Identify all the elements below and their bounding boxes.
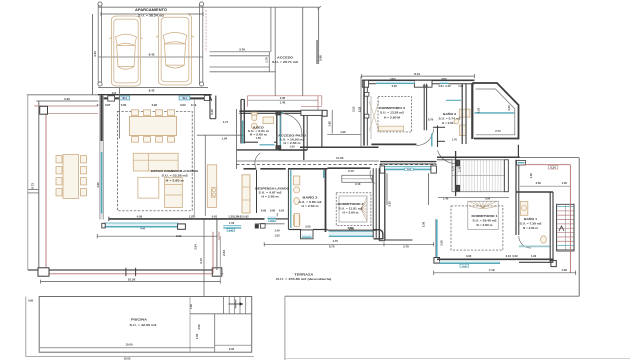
svg-text:4.40: 4.40	[93, 51, 97, 57]
pillar between dorm2 and dorm1 hall	[379, 168, 385, 240]
svg-text:(W7): (W7)	[390, 78, 395, 81]
pergola red lines	[34, 106, 98, 114]
kitchen area lines	[197, 135, 244, 216]
svg-text:2.00: 2.00	[229, 347, 235, 351]
red dashed boundary at parking right	[205, 10, 207, 52]
porch dims	[477, 105, 511, 133]
svg-text:1.00: 1.00	[561, 268, 567, 272]
svg-text:10.00: 10.00	[126, 343, 133, 347]
svg-text:11.03: 11.03	[336, 156, 344, 160]
terrace right verticals	[213, 220, 226, 282]
svg-text:APARCAMIENTO: APARCAMIENTO	[135, 8, 167, 12]
svg-text:0.60: 0.60	[121, 103, 127, 107]
svg-text:2.60: 2.60	[305, 225, 311, 229]
dorm3 south wall	[371, 143, 416, 145]
dimension 10.36	[41, 278, 221, 284]
living room label	[151, 169, 199, 183]
paso east nook wall	[321, 116, 323, 148]
car 2	[156, 14, 194, 85]
bano1 fixtures	[520, 202, 546, 244]
svg-text:H = 2.60 m: H = 2.60 m	[343, 211, 360, 215]
bano3 fixtures	[454, 109, 470, 135]
parking area outline	[98, 4, 321, 88]
dimension 3.30 left	[36, 97, 98, 101]
mid block north wall	[239, 111, 324, 113]
south wall dims	[137, 215, 243, 219]
svg-text:0.87: 0.87	[105, 103, 111, 107]
svg-text:S.U. = 13.26 m2: S.U. = 13.26 m2	[380, 111, 405, 115]
dorm1 hall walls	[387, 165, 454, 206]
svg-text:2.80: 2.80	[348, 226, 354, 230]
svg-text:1.03: 1.03	[274, 234, 280, 238]
svg-text:3.79: 3.79	[239, 48, 245, 52]
svg-text:2.10: 2.10	[348, 169, 354, 173]
svg-text:2.10: 2.10	[355, 182, 361, 186]
window dim extension line	[118, 88, 120, 139]
dim vertical 3.72	[194, 220, 205, 297]
svg-text:1.00: 1.00	[190, 303, 193, 308]
svg-text:4.70: 4.70	[333, 239, 339, 243]
svg-text:S.U. = 38.34 m2: S.U. = 38.34 m2	[138, 14, 164, 18]
svg-text:0.94: 0.94	[485, 196, 491, 200]
window W-1 left	[119, 96, 129, 100]
svg-text:1.40: 1.40	[443, 196, 449, 200]
paso south wall	[279, 149, 307, 151]
svg-text:3.53: 3.53	[507, 105, 511, 111]
dorm3 wardrobe	[365, 92, 380, 139]
fence left vertical lines	[28, 95, 46, 274]
svg-text:0.62: 0.62	[243, 215, 249, 219]
despensa south window	[267, 216, 288, 222]
pool inner division lines	[190, 297, 252, 353]
sliding glass door south	[102, 223, 186, 231]
despensa label	[255, 186, 290, 198]
svg-text:N = 2.80 m: N = 2.80 m	[477, 223, 494, 227]
svg-text:1.70: 1.70	[265, 57, 269, 63]
dorm2 label	[338, 202, 364, 215]
dorm2 south wall with window	[327, 226, 377, 236]
dorm3-bano3 divider wall	[424, 84, 433, 131]
dorm1 closet hatched	[452, 160, 508, 192]
living room dashed rect	[118, 111, 193, 211]
property boundary east black	[578, 158, 580, 297]
svg-text:2.96: 2.96	[152, 103, 158, 107]
bano2 label	[299, 194, 323, 208]
svg-text:8.44: 8.44	[414, 72, 420, 76]
acceso-paso label	[278, 133, 307, 148]
svg-text:1.16: 1.16	[423, 84, 429, 88]
despensa south step blocks	[255, 213, 285, 228]
svg-text:2.34: 2.34	[506, 254, 512, 258]
svg-text:H = 2.60 m: H = 2.60 m	[284, 141, 302, 145]
svg-text:6.75: 6.75	[329, 245, 335, 249]
svg-text:10.36: 10.36	[128, 278, 136, 282]
dorm1 block NW walls	[380, 126, 445, 164]
bano2 east wall	[325, 169, 327, 232]
dim 8.44	[362, 72, 475, 78]
dorm1 west wall cyan	[422, 219, 444, 263]
stairs center line and arrow	[559, 204, 565, 250]
living west window	[101, 152, 103, 214]
svg-text:1.00: 1.00	[562, 181, 568, 185]
wall aseo-paso divider	[276, 111, 281, 149]
svg-text:0.64: 0.64	[438, 84, 444, 88]
dorm2 west door jamb cyan	[323, 170, 325, 178]
svg-text:8.42: 8.42	[149, 88, 155, 92]
window W-1 right	[179, 96, 190, 100]
porch window cyan	[474, 112, 514, 114]
dorm3 bed dashed	[378, 97, 412, 132]
living south wall	[109, 217, 265, 221]
svg-text:0.79: 0.79	[428, 117, 434, 121]
living east wall upper	[210, 96, 229, 124]
svg-text:1.50: 1.50	[229, 221, 235, 225]
parking left dimension 4.40	[93, 14, 97, 95]
mid block west wall	[241, 99, 244, 143]
svg-text:3.52: 3.52	[357, 106, 361, 112]
svg-text:3.02: 3.02	[112, 93, 117, 95]
dorm3 west wall	[364, 80, 367, 145]
bano2 south wall with bay window	[288, 230, 327, 239]
dorm2 bed solid rect	[339, 196, 367, 222]
svg-text:3.53: 3.53	[477, 107, 481, 113]
svg-text:(W7): (W7)	[441, 78, 446, 81]
porch chamfered outline	[472, 83, 518, 139]
corridor east door jamb cyan	[431, 134, 433, 147]
NE boundary red line	[523, 164, 570, 166]
svg-text:1.40: 1.40	[280, 100, 286, 104]
stairs outline	[557, 204, 574, 251]
terrace boundary vertical mid	[284, 296, 286, 360]
svg-text:S.U. = 53.26 m2: S.U. = 53.26 m2	[162, 174, 188, 178]
dorm2 east wall	[373, 168, 376, 238]
svg-text:1.70: 1.70	[452, 137, 458, 141]
svg-text:BAÑO 1: BAÑO 1	[524, 216, 537, 221]
dorm3 north wall	[362, 80, 474, 87]
dorm2 closet	[342, 175, 373, 182]
bano3 east wall	[462, 84, 466, 144]
living east inner line	[193, 99, 195, 219]
svg-text:0.60: 0.60	[270, 209, 276, 213]
kitchen island	[165, 177, 183, 207]
svg-text:0.60: 0.60	[28, 299, 34, 303]
svg-text:3.10: 3.10	[210, 109, 214, 115]
svg-text:1.40: 1.40	[274, 229, 280, 233]
bano1 north wall	[516, 191, 553, 193]
paso east wall	[304, 111, 307, 160]
dorm2 bed dashed	[336, 193, 371, 226]
dorm1 south dims	[466, 254, 537, 258]
svg-text:2.70: 2.70	[403, 245, 409, 249]
pool outline	[26, 297, 254, 357]
svg-text:S.U. = 42.00 m2: S.U. = 42.00 m2	[130, 323, 158, 327]
svg-text:1.98: 1.98	[328, 121, 332, 127]
dorm3 label	[379, 106, 405, 120]
dorm1 label	[472, 214, 498, 227]
corridor dim 11.03	[237, 156, 380, 161]
svg-text:1.20: 1.20	[233, 215, 239, 219]
NE vertical wall piece	[517, 145, 519, 158]
bano2 fixtures	[293, 176, 299, 227]
parking label APARCAMIENTO	[101, 8, 203, 18]
svg-text:S.U. = 4.97 m2: S.U. = 4.97 m2	[259, 190, 283, 194]
dimension 3.79	[210, 48, 271, 52]
bano1 east wall	[550, 192, 553, 263]
svg-text:H = 2.60 m: H = 2.60 m	[302, 204, 320, 208]
svg-text:2.00: 2.00	[536, 181, 542, 185]
north wall dims	[97, 103, 197, 107]
svg-text:1.96: 1.96	[340, 130, 346, 134]
car 1	[109, 16, 142, 86]
dorm1-bano1 wall	[516, 160, 519, 235]
corridor west wall	[236, 109, 238, 169]
NE boundary black line	[518, 157, 579, 159]
svg-text:1.21: 1.21	[458, 84, 464, 88]
courtyard dims near paso	[301, 110, 361, 135]
dorm2 door arc	[370, 170, 375, 183]
despensa door arc	[255, 153, 260, 169]
svg-text:BAÑO 3: BAÑO 3	[443, 111, 456, 116]
svg-text:3.50: 3.50	[197, 324, 201, 330]
svg-text:S.U. = 26.71 m2: S.U. = 26.71 m2	[272, 60, 298, 64]
roof dashed line	[237, 164, 437, 166]
svg-text:DORMITORIO 3: DORMITORIO 3	[379, 106, 405, 110]
property boundary east red	[569, 165, 571, 273]
terrace piers	[38, 268, 222, 276]
svg-text:0.09: 0.09	[512, 254, 518, 258]
svg-text:16.00: 16.00	[124, 357, 131, 360]
dorm1 entry door arc	[438, 151, 457, 164]
sofa group	[133, 153, 178, 198]
svg-text:TERRAZA: TERRAZA	[294, 273, 314, 277]
svg-text:1.50: 1.50	[256, 136, 262, 140]
svg-text:3.53: 3.53	[351, 106, 355, 112]
svg-text:S.U. = 11.81 m2: S.U. = 11.81 m2	[339, 206, 364, 210]
svg-text:1.36: 1.36	[529, 173, 533, 179]
svg-text:BAÑO 2: BAÑO 2	[303, 194, 318, 199]
bano1 shower screen	[519, 245, 550, 247]
dorm1 headboard fan	[469, 201, 497, 208]
svg-text:V=H: V=H	[407, 169, 412, 171]
svg-text:0.40: 0.40	[445, 84, 451, 88]
parking corner columns	[98, 2, 204, 86]
svg-text:H = 2.80 m: H = 2.80 m	[166, 179, 185, 183]
dorm1 north wall right part	[437, 157, 520, 160]
bano3 shower screen cyan	[446, 99, 461, 101]
despensa dims	[261, 209, 285, 213]
terrace bottom dark line	[28, 269, 217, 271]
pool label	[130, 318, 158, 327]
dining table indoor	[130, 110, 177, 142]
svg-text:2.04: 2.04	[194, 244, 198, 250]
dim 0.94 and 1.40	[438, 166, 509, 200]
dimension 9.31	[97, 234, 217, 238]
pool dims	[28, 299, 235, 360]
despensa cabinets	[242, 175, 250, 213]
dorm3 south door arc	[416, 129, 433, 146]
svg-text:N = 2.60 m: N = 2.60 m	[523, 226, 539, 230]
aseo south wall and door	[244, 142, 277, 145]
svg-text:0.55: 0.55	[279, 209, 285, 213]
svg-text:4.00: 4.00	[137, 215, 143, 219]
svg-text:V=H: V=H	[270, 220, 275, 222]
terraza label	[276, 273, 331, 282]
dorm1 bed dashed	[451, 206, 503, 250]
outdoor dining table	[56, 155, 87, 199]
dim line 6.75 and 2.70	[264, 242, 434, 249]
svg-text:5.30: 5.30	[422, 221, 426, 227]
svg-text:W-1: W-1	[183, 97, 188, 100]
svg-text:ESTAR COMEDOR+COCINA: ESTAR COMEDOR+COCINA	[151, 169, 199, 173]
svg-text:W-1: W-1	[123, 97, 128, 100]
living block north wall	[98, 93, 212, 101]
svg-text:V=H: V=H	[140, 228, 145, 231]
svg-text:0.79: 0.79	[191, 103, 197, 107]
red boundary top of mid block	[248, 96, 323, 111]
stairs steps	[557, 207, 573, 246]
svg-text:ACCESO: ACCESO	[277, 55, 294, 59]
dorm3 bed headboard	[379, 126, 404, 131]
acceso label	[272, 55, 298, 64]
svg-text:H = 2.60 m: H = 2.60 m	[250, 133, 268, 137]
svg-text:V=H: V=H	[229, 230, 234, 232]
svg-text:3.30: 3.30	[64, 97, 70, 101]
svg-text:3.30: 3.30	[387, 201, 391, 207]
dorm1 north window	[380, 166, 436, 173]
svg-text:DORMITORIO 2: DORMITORIO 2	[338, 202, 364, 206]
svg-text:3.90: 3.90	[466, 254, 472, 258]
svg-text:D.U. = 155.80 m2 (descubierta): D.U. = 155.80 m2 (descubierta)	[276, 277, 331, 281]
despensa west wall	[256, 170, 258, 213]
svg-text:3.72: 3.72	[199, 258, 203, 264]
dorm3 north dims	[392, 84, 464, 88]
dorm3 windows north	[376, 78, 449, 84]
svg-text:0.60: 0.60	[180, 103, 186, 107]
svg-text:PISCINA: PISCINA	[131, 318, 148, 322]
svg-text:4.50: 4.50	[96, 182, 100, 188]
svg-text:DORMITORIO 1: DORMITORIO 1	[472, 214, 498, 218]
svg-text:2.74: 2.74	[495, 129, 501, 133]
svg-text:2.50: 2.50	[439, 240, 443, 246]
bano1 label	[520, 216, 543, 230]
dim 7.19	[434, 268, 576, 275]
entry court walls	[265, 7, 323, 96]
fence top-left horizontal	[27, 94, 98, 96]
aseo label	[248, 125, 270, 140]
bano2 west wall	[288, 169, 290, 229]
svg-text:0.61: 0.61	[212, 215, 218, 219]
faint bottom line	[285, 357, 630, 359]
closet end caps	[456, 160, 508, 192]
bano1 south wall	[519, 261, 553, 263]
hall south wall	[385, 239, 413, 241]
svg-text:S.U. = 7.39 m2: S.U. = 7.39 m2	[520, 222, 543, 226]
aseo fixtures	[251, 112, 273, 129]
closet hatch lines	[455, 160, 507, 191]
acceso walkway lines	[210, 7, 276, 96]
pergola column	[40, 106, 48, 114]
entry door arc	[281, 114, 302, 135]
svg-text:H = 2.80 M: H = 2.80 M	[384, 115, 401, 119]
terrace south boundary right	[285, 295, 579, 297]
dorm2 headboard fan east	[361, 197, 367, 221]
svg-text:0.60: 0.60	[261, 209, 267, 213]
svg-text:5.06: 5.06	[319, 55, 323, 61]
terrace bottom red line	[46, 273, 224, 275]
bano1 north window bits	[517, 161, 526, 166]
bano3 label	[439, 111, 462, 141]
svg-text:2.38: 2.38	[457, 166, 461, 172]
pool steps	[224, 297, 246, 314]
svg-text:H = 2.60 m: H = 2.60 m	[262, 195, 280, 199]
svg-text:S.U. = 29.46 m2: S.U. = 29.46 m2	[473, 219, 498, 223]
svg-text:1.50: 1.50	[195, 333, 199, 339]
svg-text:1.50: 1.50	[289, 144, 295, 148]
left fence tick	[28, 183, 39, 193]
svg-text:2.20: 2.20	[392, 84, 398, 88]
despensa-kitchen dim texts	[233, 215, 280, 238]
svg-text:1.94: 1.94	[222, 137, 228, 141]
svg-text:1.71: 1.71	[223, 120, 229, 124]
corridor north wall	[237, 147, 379, 150]
bano1 door arc	[519, 236, 531, 248]
NE dims	[520, 165, 570, 186]
closet west wall	[455, 151, 457, 196]
dorm3 left dim lines	[351, 76, 361, 147]
svg-text:2.04: 2.04	[222, 250, 226, 256]
svg-text:1.90: 1.90	[531, 254, 537, 258]
svg-text:1.87: 1.87	[189, 215, 195, 219]
living west wall	[100, 95, 104, 220]
dorm2 SE rounded corner	[374, 230, 383, 239]
svg-text:7.19: 7.19	[489, 268, 495, 272]
dorm1 bed solid rect	[468, 201, 498, 229]
window kitchen south 1.50	[223, 221, 241, 232]
corridor south wall segments	[244, 167, 371, 170]
dims 4.00 and 1.40	[248, 96, 319, 104]
dorm1 south wall	[437, 259, 556, 268]
svg-text:8.42: 8.42	[149, 53, 155, 57]
kitchen counter	[207, 165, 216, 208]
svg-text:0.34: 0.34	[550, 165, 556, 169]
svg-text:9.73: 9.73	[31, 183, 35, 189]
svg-text:9.31: 9.31	[176, 234, 182, 238]
svg-text:V=H: V=H	[462, 266, 467, 268]
